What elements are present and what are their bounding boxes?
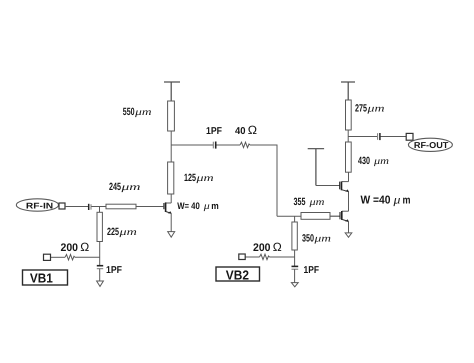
svg-text:550: 550 bbox=[123, 106, 135, 118]
svg-text:μm: μm bbox=[195, 173, 214, 184]
svg-text:μm: μm bbox=[134, 107, 152, 118]
wire TL350 down bbox=[294, 250, 296, 266]
wire input bbox=[65, 206, 88, 208]
ground right shunt bbox=[291, 283, 298, 287]
wire resistor to corner bbox=[250, 145, 277, 216]
wire TL355 to gate Q2 bbox=[330, 215, 340, 217]
svg-text:μ: μ bbox=[392, 192, 400, 206]
resistor R3 40ohm bbox=[240, 142, 250, 147]
wire interstage horizontal bbox=[171, 144, 213, 146]
svg-text:350: 350 bbox=[302, 233, 314, 245]
svg-text:μm: μm bbox=[366, 103, 384, 114]
terminal square output bbox=[406, 133, 413, 140]
label 200 ohm right bbox=[253, 240, 282, 254]
capacitor C2 1PF series bbox=[213, 142, 215, 149]
label W=40um Q1 bbox=[177, 201, 219, 212]
svg-text:225: 225 bbox=[107, 226, 119, 238]
svg-text:μm: μm bbox=[308, 197, 324, 208]
port RF-OUT bbox=[408, 138, 452, 151]
svg-text:275: 275 bbox=[355, 102, 367, 114]
transmission line TL 245um bbox=[106, 204, 136, 209]
svg-text:RF-OUT: RF-OUT bbox=[414, 140, 449, 150]
wire cap to output square bbox=[381, 136, 407, 138]
svg-text:Ω: Ω bbox=[80, 240, 89, 254]
capacitor output dc block bbox=[378, 133, 380, 140]
label 200 ohm left bbox=[61, 240, 90, 254]
wire stub to gate Q3 bbox=[316, 185, 340, 187]
power rail VDD2 bbox=[341, 82, 355, 100]
label 550um bbox=[123, 106, 152, 118]
gate bias stub rail bbox=[308, 149, 324, 186]
label 245um bbox=[109, 181, 141, 193]
svg-text:40: 40 bbox=[235, 126, 246, 137]
ground left shunt bbox=[97, 281, 104, 286]
capacitor C1 1PF shunt left bbox=[97, 266, 103, 269]
terminal square VB1 feed bbox=[44, 254, 51, 260]
wire cap to resistor bbox=[217, 144, 241, 146]
svg-text:200: 200 bbox=[61, 242, 79, 254]
label 355um bbox=[294, 196, 325, 208]
wire C3 to ground bbox=[294, 269, 296, 282]
ground Q1 bbox=[168, 232, 175, 238]
svg-text:430: 430 bbox=[358, 155, 370, 167]
label 125um bbox=[184, 172, 214, 184]
svg-text:1PF: 1PF bbox=[206, 126, 222, 137]
node gate bias tap bbox=[99, 207, 101, 213]
label 275um bbox=[355, 102, 385, 114]
capacitor input dc block bbox=[89, 204, 91, 210]
transmission line TL 355um bbox=[301, 213, 330, 220]
label 430um bbox=[358, 155, 389, 167]
svg-text:1PF: 1PF bbox=[304, 265, 320, 276]
transmission line TL 225um bbox=[97, 212, 102, 241]
terminal square input bbox=[59, 203, 65, 209]
wire cap to TL245 bbox=[92, 206, 107, 208]
svg-text:Ω: Ω bbox=[248, 123, 257, 137]
wire R2 to node bbox=[270, 256, 295, 258]
label box VB1 bbox=[23, 270, 68, 286]
svg-text:245: 245 bbox=[109, 181, 121, 193]
terminal square VB2 feed bbox=[239, 254, 245, 260]
power rail VDD1 bbox=[164, 82, 180, 101]
label 225um bbox=[107, 226, 137, 238]
transmission line TL 275um bbox=[346, 100, 352, 130]
svg-text:μm: μm bbox=[313, 234, 331, 245]
ground Q2 bbox=[345, 233, 352, 237]
wire interstage to TL355 bbox=[277, 215, 301, 217]
capacitor C3 1PF shunt right bbox=[292, 266, 299, 269]
port RF-IN bbox=[16, 199, 58, 211]
svg-text:RF-IN: RF-IN bbox=[26, 200, 53, 210]
svg-text:μm: μm bbox=[373, 156, 389, 167]
transistor Q3 bbox=[340, 172, 349, 192]
transmission line TL 125um bbox=[168, 162, 174, 194]
svg-text:1PF: 1PF bbox=[106, 265, 122, 276]
svg-text:W= 40: W= 40 bbox=[177, 201, 200, 212]
transmission line TL 430um bbox=[346, 142, 352, 172]
wire R1 to node bbox=[75, 256, 100, 258]
wire TL275 to junction bbox=[347, 130, 349, 142]
wire TL245 to gate Q1 bbox=[136, 206, 164, 208]
svg-text:VB1: VB1 bbox=[30, 271, 53, 286]
label 350um bbox=[302, 233, 331, 245]
node TL350 tap bbox=[294, 216, 296, 222]
svg-text:μ: μ bbox=[203, 201, 210, 212]
svg-text:W =40: W =40 bbox=[361, 194, 391, 206]
label 40 ohm bbox=[235, 123, 257, 137]
svg-text:355: 355 bbox=[294, 196, 306, 208]
wire output horizontal bbox=[348, 136, 377, 138]
wire bias node right bbox=[246, 256, 260, 258]
svg-text:VB2: VB2 bbox=[226, 267, 249, 282]
wire bias node left bbox=[51, 256, 66, 258]
transistor Q2 bbox=[340, 192, 349, 234]
wire C1 to ground bbox=[99, 269, 101, 281]
svg-text:200: 200 bbox=[253, 242, 271, 254]
wire TL225 down bbox=[99, 242, 101, 266]
transmission line TL 550um bbox=[168, 101, 175, 131]
label box VB2 bbox=[216, 267, 260, 282]
svg-text:Ω: Ω bbox=[273, 240, 282, 254]
svg-text:m: m bbox=[211, 201, 219, 212]
transmission line TL 350um bbox=[292, 222, 297, 250]
svg-text:μm: μm bbox=[120, 182, 141, 193]
label W=40um Q2 bbox=[361, 192, 411, 206]
resistor R2 200ohm bbox=[260, 254, 270, 259]
svg-text:μm: μm bbox=[118, 227, 137, 238]
svg-text:m: m bbox=[403, 194, 411, 206]
resistor R1 200ohm bbox=[65, 255, 75, 260]
transistor Q1 bbox=[164, 194, 172, 232]
wire drain column upper bbox=[170, 131, 172, 162]
svg-text:125: 125 bbox=[184, 172, 196, 184]
